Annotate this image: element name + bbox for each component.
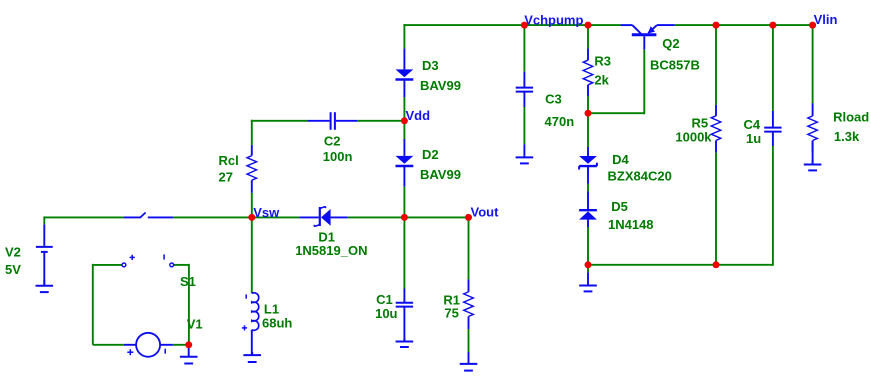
- svg-text:27: 27: [219, 170, 233, 185]
- value 2k: [594, 73, 609, 88]
- wire (top rail to R3): [587, 25, 589, 48]
- resistor R5: [711, 105, 721, 153]
- label D4: [612, 152, 629, 167]
- value 1.3k: [834, 129, 860, 144]
- svg-text:Rload: Rload: [833, 110, 869, 125]
- ground (below V1): [180, 346, 198, 364]
- svg-text:Vlin: Vlin: [814, 12, 838, 27]
- diode D1: [299, 207, 348, 226]
- wire (S1 ctrl to V1 plus): [93, 344, 124, 346]
- svg-text:Vout: Vout: [471, 204, 500, 219]
- node junction C4/top rail: [769, 22, 776, 29]
- wire (D3 to Vdd): [403, 97, 405, 121]
- ground (below C1): [396, 338, 414, 347]
- label Rcl: [219, 153, 239, 168]
- node Vout: [471, 204, 500, 219]
- wire (top rail corner down to D3): [403, 24, 405, 48]
- node Vdd junction: [401, 117, 408, 124]
- node junction R3/top rail: [585, 22, 592, 29]
- label C3: [545, 92, 562, 107]
- node junction R5/bottom rail: [713, 261, 720, 268]
- node junction C1/rail: [401, 214, 408, 221]
- svg-text:L1: L1: [264, 301, 279, 316]
- label V2: [5, 244, 21, 259]
- wire (R1 bottom): [468, 329, 470, 352]
- node Vsw junction: [248, 214, 255, 221]
- svg-text:C1: C1: [376, 292, 393, 307]
- wire (junction to D4): [587, 113, 589, 147]
- value BAV99 (D3): [420, 78, 461, 93]
- value 27: [219, 170, 233, 185]
- wire (Rload lead): [812, 141, 814, 164]
- svg-text:R3: R3: [594, 53, 611, 68]
- capacitor C3: [516, 72, 533, 107]
- wire (S1 ctrl left vertical): [92, 264, 94, 345]
- wire (C1 junction to Vout): [404, 216, 468, 218]
- svg-text:C2: C2: [324, 134, 341, 149]
- node Vchpump junction: [521, 22, 528, 29]
- label C2: [324, 134, 341, 149]
- wire (C1 top): [403, 217, 405, 288]
- wire (V2 stub): [43, 216, 45, 224]
- wire (Vdd to D2): [403, 121, 405, 139]
- wire (D4-D5 gap): [587, 184, 589, 192]
- node Vout junction: [465, 214, 472, 221]
- svg-text:BAV99: BAV99: [420, 167, 461, 182]
- svg-text:BC857B: BC857B: [650, 58, 700, 73]
- value BZX84C20: [608, 169, 672, 184]
- wire (top rail left segment): [403, 24, 620, 26]
- wire (Rload top): [812, 25, 814, 103]
- svg-text:1N5819_ON: 1N5819_ON: [295, 243, 367, 258]
- svg-text:5V: 5V: [5, 262, 21, 277]
- svg-text:S1: S1: [180, 274, 196, 289]
- label D1: [318, 229, 335, 244]
- value BAV99 (D2): [420, 167, 461, 182]
- svg-text:1000k: 1000k: [675, 129, 712, 144]
- resistor Rload: [808, 103, 818, 152]
- value 1N4148: [608, 217, 654, 232]
- wire (bottom rail up to C4): [772, 146, 774, 266]
- wire (Rcl bottom): [251, 193, 253, 218]
- wire (R5 top): [715, 25, 717, 105]
- label R1: [443, 292, 460, 307]
- wire (C2 to Vdd): [357, 120, 404, 122]
- svg-text:1u: 1u: [746, 131, 761, 146]
- svg-text:V2: V2: [5, 244, 21, 259]
- label C1: [376, 292, 393, 307]
- label R5: [692, 116, 709, 131]
- wire (R3 to base junction): [587, 96, 589, 113]
- label D5: [611, 199, 628, 214]
- svg-text:2k: 2k: [594, 73, 609, 88]
- svg-text:100n: 100n: [323, 149, 353, 164]
- ground (below R1): [460, 352, 478, 371]
- diode D4: [579, 147, 597, 184]
- resistor Rcl: [247, 145, 257, 193]
- wire (switch to Vsw): [173, 216, 252, 218]
- node V1: [187, 316, 203, 331]
- wire (V1 to node): [173, 344, 189, 346]
- svg-text:C4: C4: [744, 117, 761, 132]
- svg-text:BAV99: BAV99: [420, 78, 461, 93]
- node Vdd: [406, 108, 431, 123]
- voltage source V1: [124, 333, 173, 357]
- value 10u: [375, 306, 397, 321]
- svg-text:Q2: Q2: [662, 36, 679, 51]
- wire (bottom rail): [588, 264, 773, 266]
- svg-text:1.3k: 1.3k: [834, 129, 860, 144]
- voltage source V2: [36, 224, 53, 285]
- svg-text:C3: C3: [545, 92, 562, 107]
- ground (below L1): [243, 352, 261, 362]
- wire (S1 ctrl left horizontal): [93, 264, 123, 266]
- label S1: [180, 274, 196, 289]
- value BC857B: [650, 58, 700, 73]
- svg-text:75: 75: [444, 305, 458, 320]
- label C4: [744, 117, 761, 132]
- value 1N5819_ON: [295, 243, 367, 258]
- node junction D5/bottom rail: [585, 261, 592, 268]
- wire (base vertical): [643, 50, 645, 115]
- wire (left rail to switch): [44, 216, 123, 218]
- switch S1: [122, 213, 174, 267]
- wire (top rail right segment): [675, 24, 814, 26]
- wire (C3 to ground): [523, 107, 525, 144]
- wire (Vsw to D1): [252, 216, 299, 218]
- wire (R5 bottom): [715, 152, 717, 264]
- label R3: [594, 53, 611, 68]
- inductor L1: [242, 293, 259, 355]
- diode D3: [396, 48, 414, 97]
- label Q2: [662, 36, 679, 51]
- node Vchpump: [524, 12, 583, 27]
- value 1000k: [675, 129, 712, 144]
- diode D2: [396, 139, 414, 187]
- wire (S1 ctrl right horizontal): [173, 264, 189, 266]
- wire (R1 top): [468, 217, 470, 279]
- svg-text:D4: D4: [612, 152, 629, 167]
- svg-text:V1: V1: [187, 316, 203, 331]
- wire (base junction rail): [588, 112, 644, 114]
- resistor R1: [464, 279, 474, 329]
- ground (below Rload): [804, 160, 822, 170]
- svg-text:10u: 10u: [375, 306, 397, 321]
- wire (D1 to C1 junction): [348, 216, 405, 218]
- ground (below C3): [516, 144, 534, 163]
- svg-text:D3: D3: [422, 58, 439, 73]
- wire (Vchpump to C3): [523, 25, 525, 72]
- svg-text:Vdd: Vdd: [406, 108, 431, 123]
- transistor Q2: [621, 25, 675, 50]
- capacitor C2: [308, 112, 358, 130]
- label D2: [422, 147, 439, 162]
- ground (below D5): [579, 272, 597, 291]
- svg-text:470n: 470n: [545, 114, 575, 129]
- wire (Vsw down to L1): [251, 217, 253, 293]
- wire (C4 top): [772, 25, 774, 111]
- wire (D2 to rail): [403, 187, 405, 218]
- value 68uh: [262, 316, 292, 331]
- svg-text:D2: D2: [422, 147, 439, 162]
- node junction R5/top rail: [713, 22, 720, 29]
- value 1u: [746, 131, 761, 146]
- wire (D5 to bottom rail): [587, 227, 589, 265]
- wire (Rcl top vertical): [251, 120, 253, 145]
- value 5V: [5, 262, 21, 277]
- wire (Vdd rail left): [251, 120, 308, 122]
- svg-text:Rcl: Rcl: [219, 153, 239, 168]
- label L1: [264, 301, 279, 316]
- wire (D5 ground stub): [587, 265, 589, 272]
- value 75: [444, 305, 458, 320]
- svg-text:Vsw: Vsw: [253, 205, 280, 220]
- svg-text:D5: D5: [611, 199, 628, 214]
- capacitor C4: [764, 111, 781, 146]
- node junction V1/ground: [185, 341, 192, 348]
- resistor R3: [583, 48, 593, 96]
- wire (S1 ctrl right vertical): [188, 264, 190, 345]
- svg-text:Vchpump: Vchpump: [524, 12, 583, 27]
- node Vlin junction: [809, 22, 816, 29]
- svg-text:1N4148: 1N4148: [608, 217, 654, 232]
- svg-text:R5: R5: [692, 116, 709, 131]
- ground (below V2): [36, 280, 54, 292]
- label Rload: [833, 110, 869, 125]
- node junction R3/base: [585, 110, 592, 117]
- node Vlin: [814, 12, 838, 27]
- capacitor C1: [396, 289, 413, 342]
- diode D5: [579, 192, 597, 228]
- value 100n: [323, 149, 353, 164]
- svg-text:68uh: 68uh: [262, 316, 292, 331]
- label D3: [422, 58, 439, 73]
- value 470n: [545, 114, 575, 129]
- node Vsw: [253, 205, 280, 220]
- svg-text:BZX84C20: BZX84C20: [608, 169, 672, 184]
